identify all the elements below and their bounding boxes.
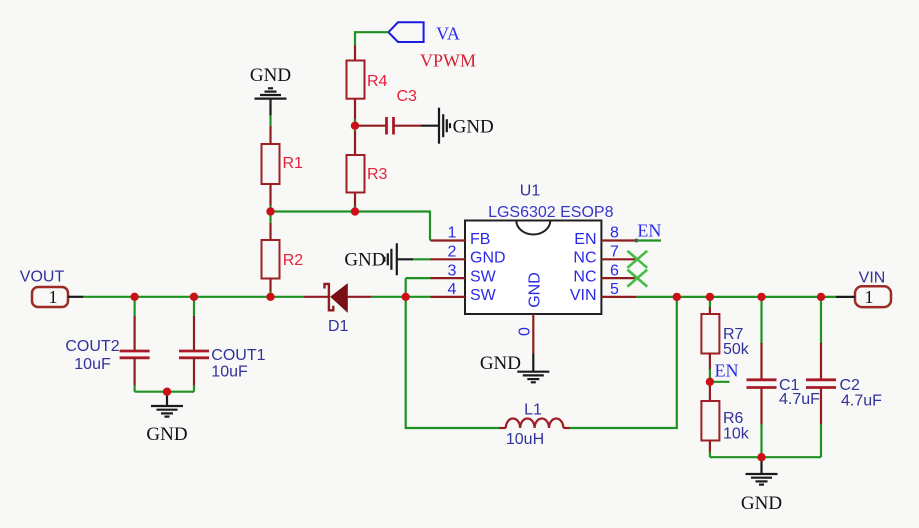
resistor R1 xyxy=(262,126,304,206)
wire R1 to node xyxy=(269,205,271,212)
svg-text:SW: SW xyxy=(470,287,497,304)
capacitor C2 xyxy=(806,297,882,457)
pin 5 VIN xyxy=(570,281,637,304)
svg-text:C3: C3 xyxy=(397,88,418,105)
svg-text:GND: GND xyxy=(741,493,782,514)
net label EN (pin 8) xyxy=(634,220,661,242)
wire VA to R4 xyxy=(355,32,388,45)
junction node R7/VIN xyxy=(706,293,714,301)
svg-text:NC: NC xyxy=(573,268,596,285)
svg-text:5: 5 xyxy=(610,281,619,298)
svg-text:L1: L1 xyxy=(524,402,542,419)
pin 7 NC xyxy=(573,244,636,267)
junction node COUT2/VOUT xyxy=(130,293,138,301)
wire R4 to node xyxy=(354,119,356,131)
wire VOUT main xyxy=(83,296,304,298)
junction node EN/R7/R6 xyxy=(706,378,714,386)
svg-text:GND: GND xyxy=(453,116,494,137)
inductor L1 xyxy=(499,402,570,448)
svg-text:C2: C2 xyxy=(840,377,861,394)
capacitor C1 xyxy=(747,297,821,457)
svg-text:COUT1: COUT1 xyxy=(211,347,265,364)
resistor R3 xyxy=(347,131,388,207)
svg-text:4.7uF: 4.7uF xyxy=(841,393,882,410)
capacitor COUT2 xyxy=(65,297,149,392)
svg-text:0: 0 xyxy=(517,327,534,336)
junction node L1/VIN xyxy=(673,293,681,301)
svg-text:2: 2 xyxy=(448,244,457,261)
junction node R1/FB xyxy=(266,207,274,215)
svg-text:SW: SW xyxy=(470,268,497,285)
junction node bottom ground xyxy=(757,453,765,461)
resistor R6 xyxy=(701,382,749,457)
junction node R3/FB xyxy=(351,207,359,215)
svg-text:VIN: VIN xyxy=(570,287,597,304)
node FB wire horizontal xyxy=(271,212,431,241)
capacitor COUT1 xyxy=(179,297,266,392)
svg-text:EN: EN xyxy=(574,231,596,248)
wire D1 to node xyxy=(371,296,406,298)
ground U1 xyxy=(480,353,549,382)
wire gnd to R1 xyxy=(269,116,271,126)
svg-text:D1: D1 xyxy=(328,318,349,335)
svg-text:R1: R1 xyxy=(283,155,304,172)
ground for C3 (sideways, bars to right) xyxy=(421,108,494,144)
net flag VA xyxy=(388,22,459,43)
svg-text:4.7uF: 4.7uF xyxy=(779,391,820,408)
svg-text:8: 8 xyxy=(610,225,619,242)
junction node R4/R3/C3 xyxy=(351,122,359,130)
svg-text:U1: U1 xyxy=(520,183,541,200)
wire R3 to node xyxy=(354,206,356,212)
pin 0 GND (bottom) xyxy=(517,272,544,353)
svg-text:GND: GND xyxy=(480,353,521,374)
svg-text:GND: GND xyxy=(146,424,187,445)
resistor R7 xyxy=(701,297,749,382)
svg-text:10uH: 10uH xyxy=(506,431,544,448)
net label EN (R7/R6 node) xyxy=(710,361,739,382)
svg-text:R3: R3 xyxy=(367,166,388,183)
svg-text:GND: GND xyxy=(250,65,291,86)
svg-text:7: 7 xyxy=(610,244,619,261)
resistor R2 xyxy=(262,212,304,297)
svg-text:1: 1 xyxy=(448,225,457,242)
wire COUT bottom xyxy=(135,391,194,393)
ground (top left, inverted) xyxy=(250,65,291,116)
pin 3 SW xyxy=(431,262,497,285)
junction node C1/VIN xyxy=(757,293,765,301)
wire L1 right vertical xyxy=(570,297,677,428)
ground bottom right xyxy=(741,457,782,514)
svg-text:10uF: 10uF xyxy=(74,356,111,373)
svg-text:R4: R4 xyxy=(367,73,388,90)
op-amp U1 LGS6302 ESOP8 xyxy=(465,183,614,314)
junction node COUT ground xyxy=(163,388,171,396)
svg-text:10uF: 10uF xyxy=(211,364,248,381)
no-connect X pin 6 xyxy=(627,270,647,287)
ground pin2 (sideways, bars to left of stem) xyxy=(344,243,430,275)
resistor R4 xyxy=(347,46,388,121)
pin 1 FB xyxy=(431,225,491,248)
svg-text:R2: R2 xyxy=(283,252,304,269)
pin 4 SW xyxy=(431,281,497,304)
svg-text:1: 1 xyxy=(49,287,58,307)
junction node SW/D1/L1 xyxy=(402,293,410,301)
svg-text:GND: GND xyxy=(527,272,544,308)
svg-text:4: 4 xyxy=(448,281,457,298)
svg-text:R6: R6 xyxy=(723,410,744,427)
pin 2 GND xyxy=(431,244,506,267)
junction node R2/VOUT xyxy=(266,293,274,301)
pin 6 NC xyxy=(573,262,636,285)
pin 8 EN xyxy=(574,225,636,248)
diode D1 (schottky) xyxy=(304,284,372,335)
svg-text:50k: 50k xyxy=(723,341,750,358)
capacitor C3 xyxy=(358,88,421,135)
svg-text:GND: GND xyxy=(344,249,385,270)
svg-text:6: 6 xyxy=(610,262,619,279)
svg-text:FB: FB xyxy=(470,231,490,248)
svg-text:3: 3 xyxy=(448,262,457,279)
svg-text:VA: VA xyxy=(436,24,460,44)
svg-text:GND: GND xyxy=(470,250,506,267)
svg-text:10k: 10k xyxy=(723,426,750,443)
no-connect X pin 7 xyxy=(627,251,647,268)
wire SW vertical + L1 branch xyxy=(406,278,499,428)
wire bottom right xyxy=(710,456,821,458)
wire VIN main xyxy=(636,296,836,298)
svg-text:COUT2: COUT2 xyxy=(65,338,119,355)
svg-text:VPWM: VPWM xyxy=(420,51,476,71)
svg-text:EN: EN xyxy=(715,361,739,381)
svg-text:EN: EN xyxy=(637,220,661,240)
svg-text:VIN: VIN xyxy=(859,270,886,287)
svg-text:LGS6302 ESOP8: LGS6302 ESOP8 xyxy=(488,204,614,221)
junction node C2/VIN xyxy=(817,293,825,301)
svg-text:VOUT: VOUT xyxy=(20,269,65,286)
svg-text:1: 1 xyxy=(865,287,874,307)
port VIN xyxy=(836,270,891,308)
junction node COUT1/VOUT xyxy=(190,293,198,301)
svg-text:NC: NC xyxy=(573,250,596,267)
ground COUT xyxy=(146,392,187,445)
port VOUT xyxy=(20,269,84,308)
